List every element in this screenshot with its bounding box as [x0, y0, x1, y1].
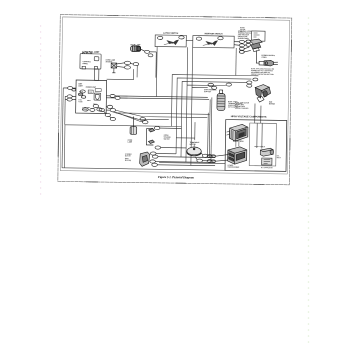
- latch switch box: [155, 35, 186, 47]
- svg-text:MOTOR): MOTOR): [125, 160, 132, 162]
- svg-text:FUSE: FUSE: [78, 101, 82, 103]
- diagonal fan wires below power unit: [113, 110, 210, 122]
- svg-text:PANEL: PANEL: [83, 62, 89, 65]
- svg-text:CUT-OUT: CUT-OUT: [204, 91, 211, 93]
- ribbon cable control->power unit: [95, 69, 99, 80]
- frame dark dashes (scan): [58, 15, 292, 185]
- page outer border frame: [58, 15, 292, 185]
- note text block bottom right of plug: [251, 67, 274, 76]
- svg-text:OVEN LAMP: OVEN LAMP: [130, 43, 141, 46]
- left ovals of noise filter: [239, 47, 251, 54]
- noise filter board: [251, 31, 265, 41]
- cord + plug: [256, 50, 278, 66]
- svg-text:MOTOR: MOTOR: [190, 144, 197, 146]
- svg-text:SWITCH: SWITCH: [164, 138, 171, 140]
- diagram inner border frame: [60, 17, 289, 174]
- control unit box: [80, 53, 101, 70]
- lamp socket connectors: [140, 49, 157, 57]
- power unit box: [76, 80, 107, 113]
- high voltage components box: [225, 120, 287, 172]
- long bottom wire A: [159, 162, 225, 165]
- text block right of cutout: [228, 101, 243, 109]
- svg-text:MONITOR SWITCH: MONITOR SWITCH: [205, 33, 223, 35]
- fan motor text block: [235, 101, 250, 110]
- svg-text:COOLS THE: COOLS THE: [235, 104, 244, 106]
- noise filter text block: [240, 27, 246, 33]
- svg-text:RECT.: RECT.: [277, 157, 282, 159]
- svg-text:POWER UNIT: POWER UNIT: [86, 87, 96, 89]
- left long wires down: [62, 88, 65, 168]
- diagonal connector strip below power unit: [93, 104, 116, 120]
- fan motor 3D: [255, 85, 271, 103]
- connector pairs into HV box: [207, 154, 228, 163]
- wire latch to monitor: [186, 39, 193, 41]
- svg-text:NOISE: NOISE: [240, 27, 245, 29]
- svg-text:LATCH SWITCH: LATCH SWITCH: [163, 32, 179, 35]
- lamp socket part: [111, 63, 117, 73]
- svg-text:Figure 5-1. Pictorial Diagram: Figure 5-1. Pictorial Diagram: [158, 175, 195, 180]
- inner chassis rect: [249, 123, 276, 166]
- wire lamp area down: [107, 65, 138, 79]
- HV capacitor 3D: [260, 148, 273, 156]
- interlock switch 3D: [250, 39, 263, 52]
- power unit right exit wires: [106, 94, 209, 113]
- connector ovals on fan wires: [140, 117, 148, 123]
- oven lamp 2 (bottom): [130, 116, 137, 134]
- interlock switch assembly (door): [146, 128, 154, 145]
- turntable motor dome: [187, 145, 202, 156]
- shield symbol inside power unit: [94, 93, 101, 100]
- left connectors of power unit: [63, 86, 76, 101]
- oven lamp (top): [131, 46, 141, 52]
- svg-text:POWER: POWER: [228, 165, 235, 167]
- monitor switch box: [193, 36, 234, 48]
- svg-text:SENSING: SENSING: [164, 137, 172, 139]
- svg-text:LOW VOLT: LOW VOLT: [82, 107, 90, 109]
- note text right of monitor switch: [238, 31, 253, 40]
- power unit bottom row: [82, 108, 102, 112]
- right vertical bus: [176, 97, 212, 161]
- svg-text:R101: R101: [89, 92, 93, 94]
- svg-text:F101: F101: [79, 99, 83, 101]
- wire cluster down: [235, 48, 237, 75]
- svg-text:FILTER: FILTER: [240, 29, 246, 31]
- svg-text:STIRRER: STIRRER: [125, 154, 133, 156]
- svg-text:HIGH VOLTAGE COMPONENTS: HIGH VOLTAGE COMPONENTS: [231, 115, 267, 119]
- connector cluster top right: [234, 40, 251, 47]
- svg-text:DURING COOKING: DURING COOKING: [235, 108, 249, 110]
- wire below latch box: [155, 47, 158, 97]
- power transformer 3D: [228, 147, 247, 165]
- connector row middle right: [208, 77, 258, 90]
- scan artifact dotted vertical lines: [40, 17, 309, 343]
- power unit small parts: [78, 90, 86, 98]
- bottom cluster: stirrer/fan motor: [140, 152, 150, 167]
- big bottom-left rectangle loop: [62, 125, 226, 171]
- HV rectifier small box: [262, 158, 272, 165]
- svg-text:MOTOR: MOTOR: [269, 103, 276, 105]
- wire bus corners (5 wires): [171, 75, 259, 167]
- svg-text:UNIT: UNIT: [240, 31, 244, 33]
- lamp terminal ovals: [117, 61, 139, 69]
- thermal cutout cylinder: [217, 90, 225, 111]
- svg-text:MOTOR: MOTOR: [125, 155, 132, 157]
- wires fan to HV box: [254, 103, 262, 148]
- magnetron 3D: [229, 124, 248, 141]
- svg-text:CORD: CORD: [261, 57, 267, 59]
- svg-text:SHOWN OPEN: SHOWN OPEN: [238, 38, 250, 40]
- svg-text:CN-D: CN-D: [87, 100, 91, 102]
